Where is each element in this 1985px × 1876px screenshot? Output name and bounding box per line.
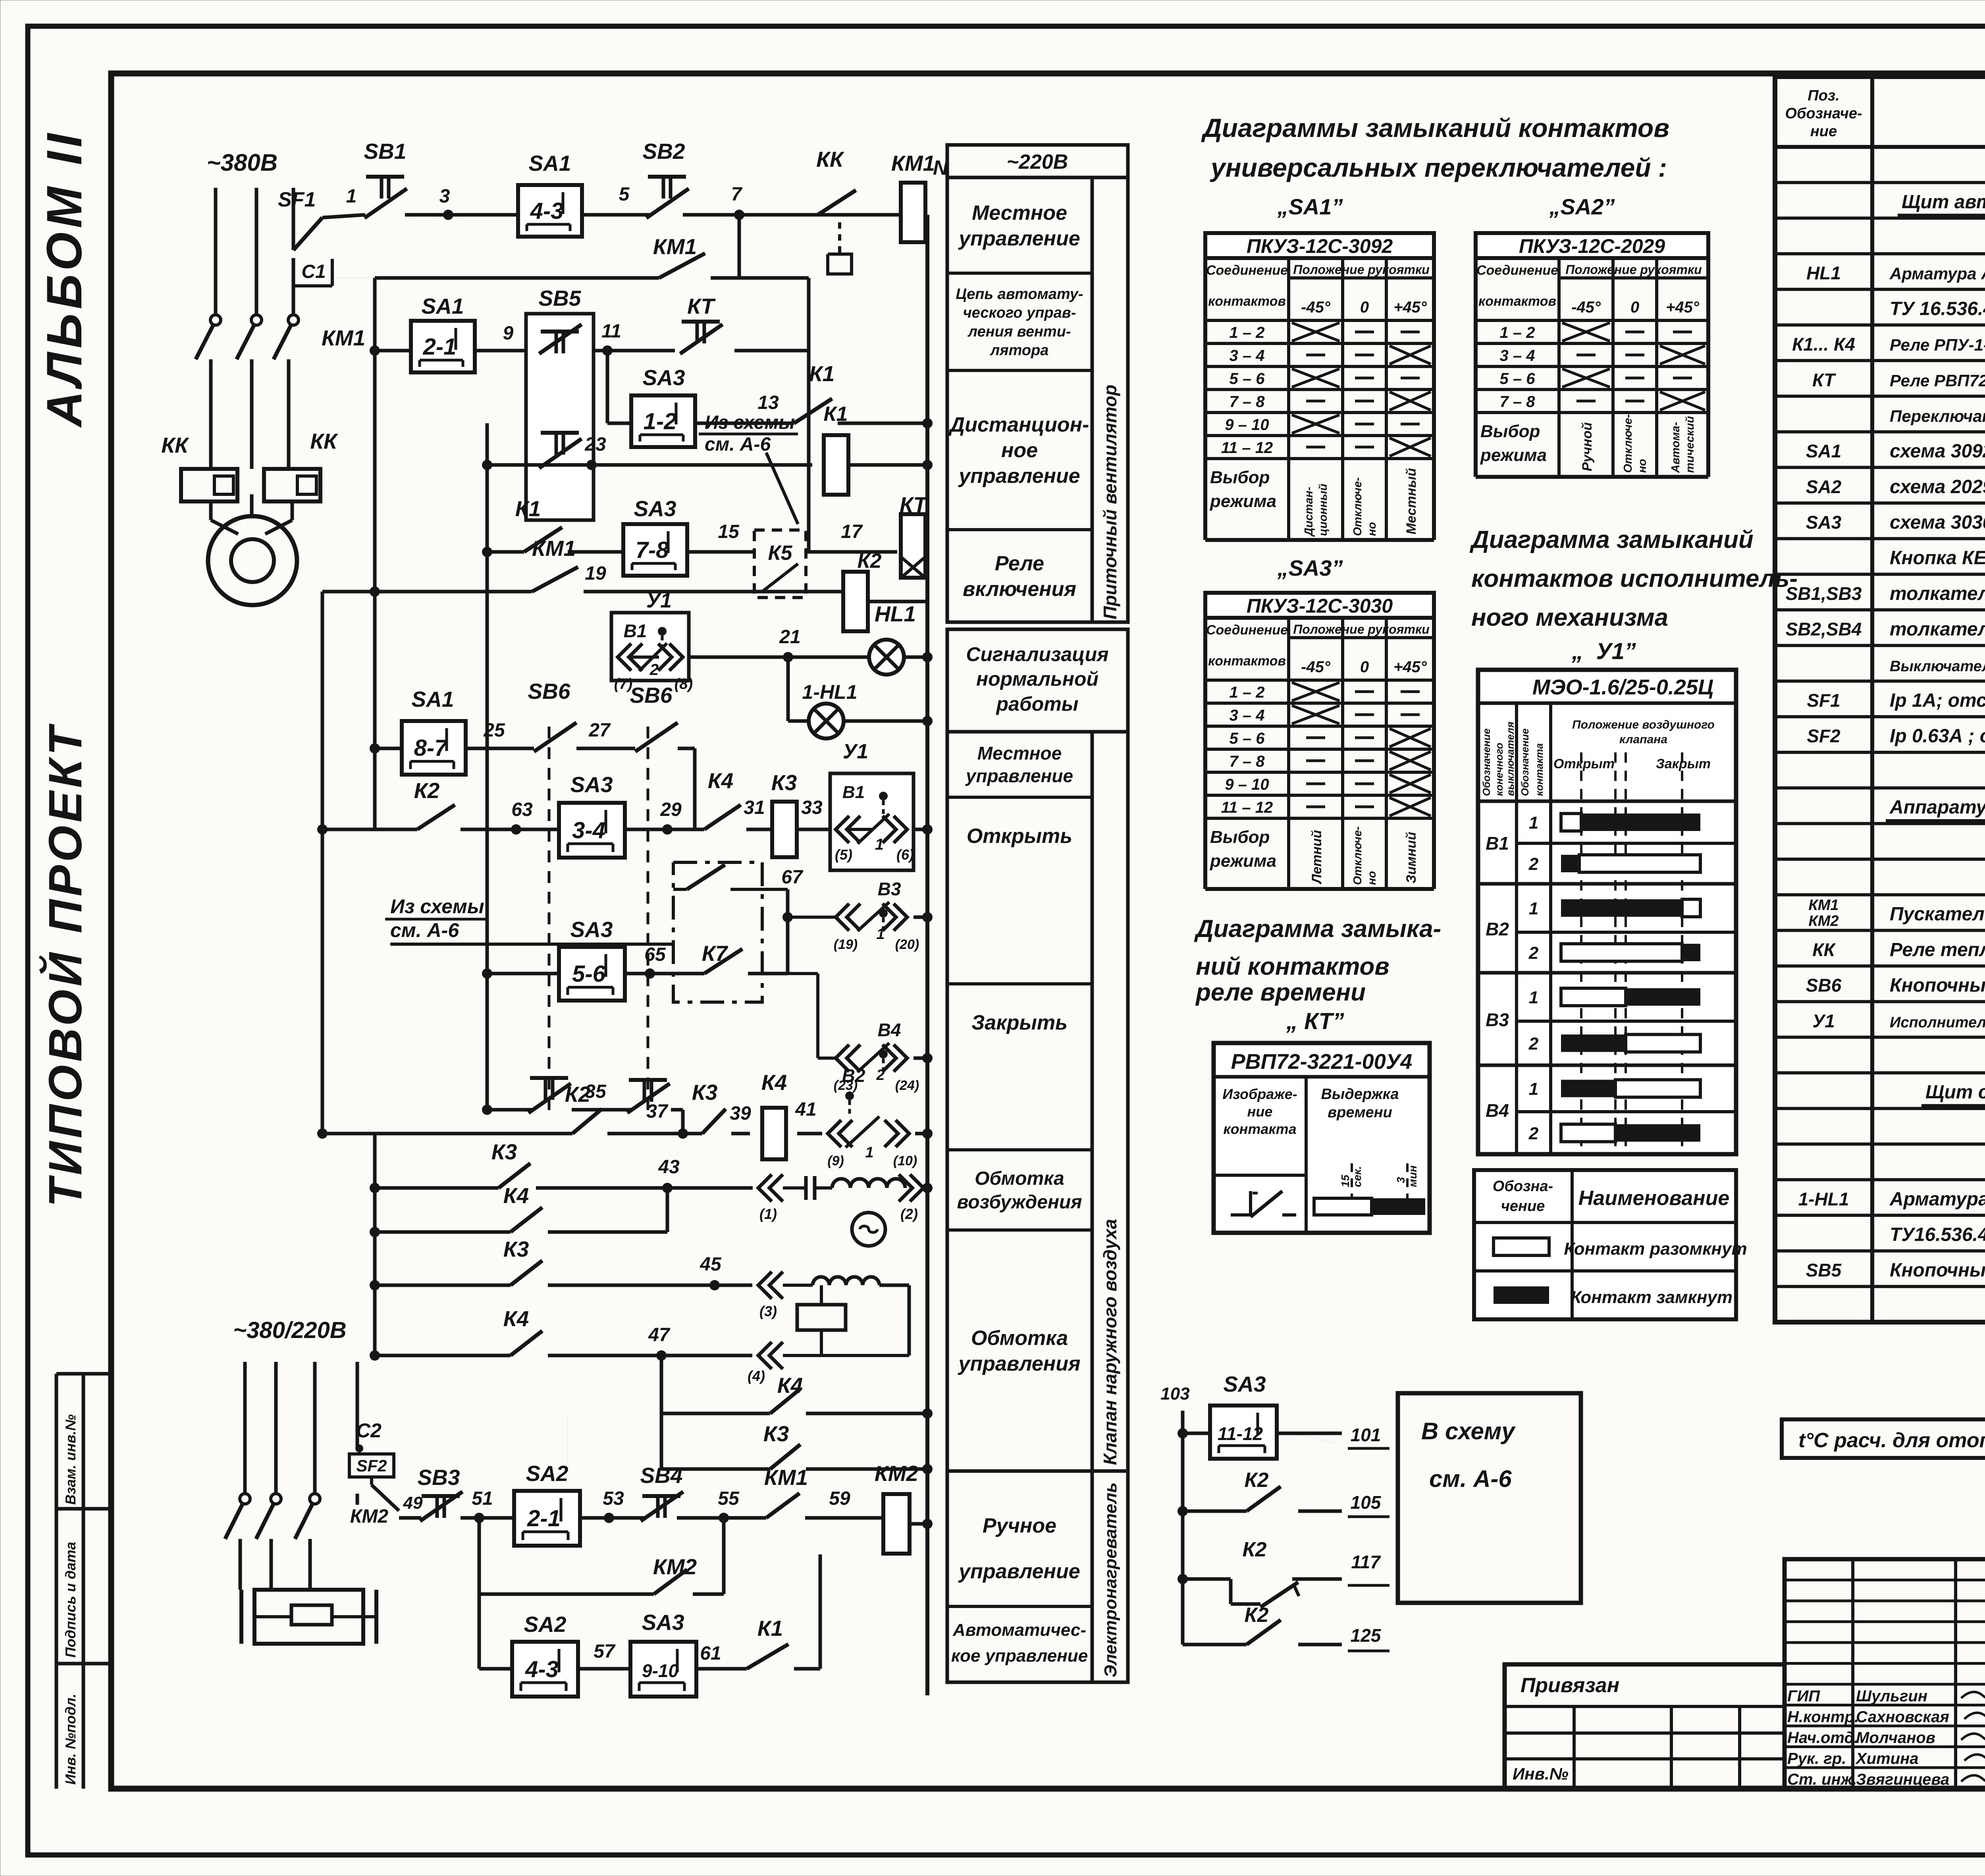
svg-text:У1: У1 [1812, 1010, 1835, 1031]
svg-text:Кнопочный пост управления ПКЕ: Кнопочный пост управления ПКЕ222-2У3 [1890, 975, 1985, 996]
svg-text:КК: КК [161, 433, 189, 457]
svg-text:Выбор: Выбор [1480, 422, 1540, 441]
switch box SA3 contacts 3-4 [559, 772, 625, 858]
svg-text:ний контактов: ний контактов [1196, 953, 1389, 980]
svg-text:SA3: SA3 [634, 496, 676, 521]
svg-text:КК: КК [816, 147, 844, 172]
svg-text:1: 1 [876, 926, 885, 943]
table MEO-1.6/25-0.25 actuator [1478, 670, 1736, 1154]
wire rung 43 field winding [370, 1183, 753, 1193]
wire rung automatic 57-61 [479, 1554, 820, 1669]
node 41 [795, 1099, 816, 1120]
button SB3 [418, 1465, 463, 1521]
svg-text:31: 31 [744, 797, 765, 818]
svg-text:контактов: контактов [1208, 654, 1286, 669]
svg-text:нормальной: нормальной [976, 668, 1098, 690]
node 39 [730, 1103, 751, 1124]
svg-text:ПКУЗ-12С-3030: ПКУЗ-12С-3030 [1247, 595, 1393, 617]
svg-text:SB1,SB3: SB1,SB3 [1786, 583, 1862, 604]
node 63 [511, 799, 533, 835]
node 27 [588, 720, 611, 741]
svg-text:(8): (8) [675, 676, 693, 692]
node 23 [584, 434, 606, 470]
svg-text:(6): (6) [896, 846, 914, 863]
svg-text:Закрыть: Закрыть [971, 1011, 1068, 1034]
svg-text:В1: В1 [842, 783, 865, 802]
svg-text:11 – 12: 11 – 12 [1221, 439, 1273, 457]
svg-text:лятора: лятора [990, 342, 1049, 359]
svg-text:Соединение: Соединение [1476, 263, 1558, 278]
coil K3 [771, 770, 797, 857]
svg-text:0: 0 [1630, 299, 1639, 316]
lamp 1-HL1 [802, 681, 933, 738]
wire phase C [292, 188, 295, 250]
contactor KM1 main contacts [196, 315, 365, 469]
svg-text:Выдержка: Выдержка [1321, 1086, 1399, 1103]
svg-text:Автоматичес-: Автоматичес- [952, 1620, 1086, 1640]
svg-text:Аппаратура по месту: Аппаратура по месту [1889, 797, 1985, 818]
svg-text:КМ1: КМ1 [764, 1465, 808, 1490]
svg-text:„ КТ”: „ КТ” [1286, 1008, 1344, 1034]
wire rung 2 [370, 345, 809, 356]
svg-text:ное: ное [1001, 439, 1038, 462]
svg-text:Арматура АС-220; U~220В; цве: Арматура АС-220; U~220В; цвет зеленый [1889, 1189, 1985, 1210]
svg-text:выключателя: выключателя [1504, 722, 1516, 796]
note box to scheme A-6 [1398, 1393, 1581, 1603]
svg-text:МЭО-1.6/25-0.25Ц: МЭО-1.6/25-0.25Ц [1532, 675, 1713, 699]
svg-text:SA1: SA1 [412, 687, 454, 711]
svg-text:29: 29 [660, 799, 682, 820]
svg-text:3 – 4: 3 – 4 [1230, 347, 1265, 364]
svg-text:Положение рукоятки: Положение рукоятки [1565, 262, 1702, 277]
svg-text:SB5: SB5 [539, 286, 582, 310]
svg-text:33: 33 [801, 797, 823, 818]
svg-text:Iр 0.63А ; отс. 1.3: Iр 0.63А ; отс. 1.3 [1890, 726, 1985, 747]
connector arrows and capacitor rung43 [758, 1174, 832, 1222]
svg-text:ПКУЗ-12С-3092: ПКУЗ-12С-3092 [1247, 235, 1393, 257]
switch box SA3 contacts 9-10 [630, 1610, 696, 1697]
inductor field winding [832, 1174, 933, 1222]
svg-text:5 – 6: 5 – 6 [1500, 370, 1536, 388]
svg-text:У1: У1 [843, 740, 868, 763]
contact K3 rung39 [692, 1080, 726, 1134]
svg-text:Цепь автомату-: Цепь автомату- [956, 286, 1083, 303]
node 31 [744, 797, 772, 829]
svg-text:Iр 1А; отс. 1.3: Iр 1А; отс. 1.3 [1890, 690, 1985, 711]
svg-text:Положение воздушного: Положение воздушного [1572, 718, 1715, 731]
svg-text:Открыть: Открыть [967, 825, 1072, 848]
svg-text:К1... К4: К1... К4 [1792, 334, 1855, 355]
svg-text:В3: В3 [878, 879, 901, 899]
wire rung 19 [370, 586, 844, 597]
svg-text:SF1: SF1 [1807, 690, 1840, 711]
svg-text:ПКУЗ-12С-2029: ПКУЗ-12С-2029 [1519, 235, 1665, 257]
contact K2 rung37 [565, 1082, 602, 1134]
svg-text:2-1: 2-1 [423, 334, 457, 360]
svg-text:К2: К2 [1243, 1538, 1267, 1561]
node 3 [439, 186, 453, 220]
svg-text:(24): (24) [895, 1078, 919, 1093]
node 65 [644, 944, 666, 979]
contact K3 field [491, 1139, 530, 1188]
svg-text:SB2: SB2 [643, 139, 685, 164]
svg-text:но: но [1636, 459, 1649, 473]
svg-text:Отключе-: Отключе- [1351, 477, 1364, 536]
svg-text:схема 3092: схема 3092 [1890, 441, 1985, 462]
svg-text:55: 55 [718, 1488, 740, 1509]
svg-text:Исполнительный механизм МЭО-1.: Исполнительный механизм МЭО-1.6/25-0.25Ц… [1890, 1014, 1985, 1031]
contact B3 with arrows [788, 879, 933, 952]
switch box SA2 contacts 2-1 [514, 1461, 580, 1546]
svg-text:ТИПОВОЙ ПРОЕКТ: ТИПОВОЙ ПРОЕКТ [38, 723, 92, 1207]
svg-text:Местное: Местное [977, 743, 1062, 764]
svg-text:Шульгин: Шульгин [1856, 1687, 1927, 1705]
svg-text:Автома-: Автома- [1669, 422, 1682, 473]
svg-text:~380В: ~380В [207, 149, 278, 176]
wire phase A [214, 188, 218, 315]
button SB1 [364, 139, 407, 218]
note from scheme A-6 top [699, 412, 798, 524]
svg-text:3 – 4: 3 – 4 [1500, 347, 1535, 364]
svg-text:клапана: клапана [1619, 733, 1667, 746]
svg-text:Выбор: Выбор [1210, 827, 1270, 847]
switch box SA1 contacts 8-7 [370, 687, 520, 775]
svg-text:0: 0 [1360, 658, 1369, 676]
svg-text:2: 2 [876, 1067, 885, 1084]
svg-text:SB6: SB6 [528, 679, 570, 704]
svg-text:„SA1”: „SA1” [1277, 194, 1343, 219]
svg-text:SA2: SA2 [1806, 476, 1842, 497]
svg-text:2: 2 [1528, 943, 1539, 963]
svg-text:HL1: HL1 [875, 602, 916, 626]
table SA3 PKU3-12S-3030 [1205, 593, 1434, 889]
svg-text:КМ2: КМ2 [653, 1554, 697, 1579]
wire rung manual 49-59 [350, 1493, 883, 1527]
wires into heater box [240, 1494, 357, 1590]
svg-text:(19): (19) [834, 937, 858, 952]
rail left lower [322, 592, 375, 1134]
svg-text:Подпись и дата: Подпись и дата [62, 1542, 79, 1658]
svg-text:реле времени: реле времени [1195, 979, 1366, 1006]
svg-text:ТУ 16.536.426-70: ТУ 16.536.426-70 [1890, 298, 1985, 319]
coil KM2 [875, 1461, 933, 1554]
svg-text:53: 53 [603, 1488, 624, 1509]
svg-text:Реле: Реле [995, 552, 1044, 575]
svg-text:SA3: SA3 [643, 365, 685, 390]
svg-text:9 – 10: 9 – 10 [1225, 416, 1269, 434]
switch box SA3 contacts 1-2 [631, 365, 695, 447]
svg-text:2: 2 [1528, 1124, 1539, 1143]
node 25 [483, 720, 505, 741]
svg-text:КМ1: КМ1 [1808, 897, 1839, 914]
contact K2 closed wire 117 [1178, 1538, 1389, 1607]
svg-text:0: 0 [1360, 299, 1369, 316]
svg-text:К5: К5 [768, 542, 793, 565]
svg-text:КМ1: КМ1 [322, 326, 365, 350]
svg-text:Переключатель ПКУЗ-12С; ТУ1: Переключатель ПКУЗ-12С; ТУ16.526.047-74 [1890, 407, 1985, 425]
svg-text:В3: В3 [1486, 1010, 1509, 1030]
svg-text:Дистан-: Дистан- [1303, 487, 1315, 537]
svg-text:но: но [1366, 522, 1378, 536]
svg-text:~380/220В: ~380/220В [233, 1317, 346, 1343]
svg-text:„SA3”: „SA3” [1277, 555, 1343, 580]
svg-text:Обмотка: Обмотка [971, 1327, 1068, 1350]
svg-text:К2: К2 [1245, 1604, 1269, 1627]
svg-text:SA2: SA2 [526, 1461, 569, 1486]
svg-text:У1: У1 [646, 589, 672, 612]
svg-text:101: 101 [1351, 1425, 1381, 1445]
bus ~380/220V label [233, 1317, 346, 1343]
svg-text:К1: К1 [757, 1616, 783, 1641]
svg-text:SA3: SA3 [1224, 1372, 1266, 1396]
svg-text:Диаграмма замыка-: Диаграмма замыка- [1194, 915, 1441, 943]
coil K2 [843, 549, 927, 631]
svg-text:117: 117 [1351, 1552, 1381, 1572]
mech link dashed SB6 left [548, 727, 551, 1112]
contact KK thermal [816, 147, 856, 274]
svg-text:Обозначение: Обозначение [1480, 729, 1492, 796]
svg-text:1: 1 [875, 836, 884, 853]
svg-text:толкатель красный: толкатель красный [1890, 583, 1985, 604]
svg-text:61: 61 [700, 1643, 721, 1664]
svg-text:К4: К4 [708, 768, 733, 793]
svg-text:управление: управление [958, 465, 1080, 488]
svg-text:Зимний: Зимний [1404, 832, 1419, 883]
svg-text:Открыт: Открыт [1553, 756, 1615, 771]
svg-text:105: 105 [1351, 1492, 1382, 1513]
svg-text:Обозна-: Обозна- [1493, 1178, 1553, 1195]
title block signature table [1785, 1559, 1985, 1789]
svg-text:3: 3 [439, 186, 450, 207]
left margin vertical text TIPOVOY PROEKT [38, 723, 92, 1207]
svg-text:SA2: SA2 [524, 1612, 567, 1637]
svg-text:(2): (2) [900, 1206, 918, 1222]
node 51 [472, 1488, 493, 1523]
svg-text:Сигнализация: Сигнализация [966, 643, 1108, 665]
mech link dashed SB6 right [647, 727, 649, 1112]
svg-text:КМ1: КМ1 [532, 536, 576, 561]
node 17 [841, 521, 863, 542]
svg-text:Клапан наружного воздуха: Клапан наружного воздуха [1100, 1219, 1120, 1465]
svg-text:Приточный вентилятор: Приточный вентилятор [1100, 385, 1120, 619]
svg-text:Инв.№: Инв.№ [1513, 1764, 1569, 1783]
svg-text:+45°: +45° [1393, 299, 1427, 316]
svg-text:(3): (3) [759, 1303, 777, 1319]
svg-text:Соединение: Соединение [1206, 263, 1288, 278]
svg-text:+45°: +45° [1393, 658, 1427, 676]
svg-text:АЛЬБОМ II: АЛЬБОМ II [37, 129, 92, 428]
rail N right [927, 156, 948, 1695]
svg-text:5 – 6: 5 – 6 [1230, 370, 1265, 388]
breaker SF2 and C2 [349, 1419, 399, 1511]
node 45 [700, 1254, 722, 1290]
svg-text:67: 67 [781, 867, 804, 888]
wire rung 1 main [322, 215, 901, 218]
svg-text:КМ2: КМ2 [350, 1506, 388, 1527]
svg-text:Местное: Местное [972, 201, 1067, 224]
svg-text:Привязан: Привязан [1521, 1674, 1619, 1697]
svg-text:103: 103 [1160, 1384, 1189, 1404]
table RVP72-3221-00U4 time relay [1214, 1043, 1430, 1233]
node 59 [829, 1488, 850, 1509]
svg-text:К2: К2 [565, 1082, 591, 1107]
svg-text:49: 49 [403, 1493, 423, 1513]
svg-text:Щит автоматизации ЩА: Щит автоматизации ЩА [1902, 191, 1985, 212]
svg-text:Реле тепловое: Реле тепловое [1890, 939, 1985, 960]
svg-text:К4: К4 [503, 1183, 529, 1208]
svg-text:Рук. гр.: Рук. гр. [1787, 1750, 1846, 1768]
svg-text:Изображе-: Изображе- [1222, 1086, 1297, 1102]
svg-text:управление: управление [958, 227, 1080, 250]
svg-text:ТУ16.536.426-70 ;: ТУ16.536.426-70 ; [1890, 1224, 1985, 1245]
wire phase B [255, 188, 258, 315]
node 11 [601, 321, 621, 356]
svg-text:Взам. инв.№: Взам. инв.№ [62, 1414, 79, 1505]
svg-text:Щит сигнализации ЩС: Щит сигнализации ЩС [1925, 1082, 1985, 1103]
svg-text:5 – 6: 5 – 6 [1230, 730, 1265, 747]
svg-text:1: 1 [1529, 813, 1538, 833]
svg-text:SB5: SB5 [1806, 1260, 1842, 1280]
svg-text:контактов: контактов [1478, 294, 1556, 309]
svg-text:3-4: 3-4 [572, 817, 605, 843]
svg-text:К4: К4 [503, 1306, 529, 1331]
svg-text:SF2: SF2 [1807, 726, 1840, 746]
svg-text:43: 43 [658, 1157, 680, 1178]
svg-text:Положение рукоятки: Положение рукоятки [1293, 622, 1429, 636]
table specification frame [1775, 77, 1985, 1322]
svg-text:Хитина: Хитина [1855, 1750, 1919, 1768]
svg-text:Отключе-: Отключе- [1622, 414, 1634, 473]
svg-text:В4: В4 [1486, 1100, 1509, 1121]
svg-text:SA3: SA3 [642, 1610, 684, 1635]
svg-text:Ст. инж.: Ст. инж. [1787, 1771, 1857, 1788]
svg-text:тический: тический [1684, 416, 1696, 473]
svg-text:К2: К2 [858, 549, 882, 573]
lamp HL1 [869, 602, 933, 675]
svg-text:управления: управления [957, 1352, 1080, 1375]
svg-text:7: 7 [731, 184, 743, 205]
svg-text:контакта: контакта [1223, 1121, 1296, 1137]
svg-text:25: 25 [483, 720, 505, 741]
node 9 [503, 323, 514, 344]
vertical label Pritochny ventilyator [1092, 177, 1128, 622]
heading time relay diagram [1194, 915, 1441, 1034]
svg-text:~220В: ~220В [1007, 150, 1068, 174]
switch box SA1 contacts 4-3 [518, 151, 582, 237]
svg-text:возбуждения: возбуждения [957, 1192, 1082, 1213]
wire rung K4 3103 [370, 1188, 667, 1237]
electric heater box [241, 1590, 376, 1644]
vertical label Elektronagrevatel [1092, 1471, 1128, 1682]
svg-text:управление: управление [965, 765, 1073, 786]
svg-text:К3: К3 [503, 1237, 529, 1261]
svg-text:схема 2029: схема 2029 [1890, 476, 1985, 497]
contact B4 with arrows [788, 974, 933, 1093]
svg-text:см. А-6: см. А-6 [390, 919, 459, 941]
label Y1 quoted [1571, 638, 1636, 664]
node 5 [619, 184, 630, 205]
svg-text:7 – 8: 7 – 8 [1500, 393, 1536, 411]
wire rung K4 3560 [661, 1355, 933, 1419]
svg-text:К2: К2 [1245, 1469, 1269, 1492]
svg-text:„SA2”: „SA2” [1549, 194, 1615, 219]
actuator Y1 contact box B1 lower [830, 740, 933, 870]
svg-text:23: 23 [584, 434, 606, 455]
svg-text:15: 15 [1339, 1174, 1351, 1187]
svg-text:Из схемы: Из схемы [390, 895, 484, 918]
mode column signal cell [947, 629, 1128, 732]
mode column heater cells [947, 1471, 1092, 1682]
svg-text:КК: КК [1812, 939, 1836, 960]
thermal relay KK heater left [161, 433, 237, 501]
connector arrow 3 [758, 1272, 813, 1319]
wire rung 15-17 [482, 547, 897, 557]
contact KM1 manual [764, 1465, 808, 1518]
svg-text:см. А-6: см. А-6 [705, 434, 771, 455]
svg-text:63: 63 [511, 799, 533, 820]
contact K7 lower [704, 949, 788, 974]
contact K1 seal-in [794, 361, 834, 423]
svg-text:К3: К3 [692, 1080, 717, 1105]
svg-text:(10): (10) [893, 1153, 917, 1168]
wires heaters to motor [211, 494, 292, 534]
svg-text:2-1: 2-1 [527, 1506, 561, 1531]
svg-text:В1: В1 [1486, 833, 1509, 854]
svg-text:SB4: SB4 [640, 1463, 683, 1488]
svg-text:Ручное: Ручное [983, 1514, 1056, 1537]
switch box SA3 contacts 5-6 [559, 917, 625, 1001]
contact K2 wire 105 [1178, 1469, 1389, 1517]
mode column fan cells [947, 177, 1092, 622]
svg-text:8-7: 8-7 [414, 735, 449, 761]
svg-text:но: но [1366, 871, 1378, 885]
svg-text:ного механизма: ного механизма [1471, 604, 1668, 631]
label SA3 quoted [1277, 555, 1343, 580]
contact KT time relay [680, 294, 723, 354]
wire rung K3 3700 [568, 1413, 933, 1474]
contact K4 3103 [503, 1183, 542, 1232]
svg-text:конечного: конечного [1493, 742, 1505, 796]
svg-text:11 – 12: 11 – 12 [1221, 799, 1273, 816]
svg-text:11: 11 [601, 321, 621, 342]
svg-text:1 – 2: 1 – 2 [1230, 684, 1265, 701]
svg-text:Пускатель магнитный: Пускатель магнитный [1890, 904, 1985, 925]
node 103 [1160, 1384, 1189, 1404]
svg-text:„ У1”: „ У1” [1571, 638, 1636, 664]
svg-text:19: 19 [585, 563, 606, 584]
rail mid-left [482, 423, 492, 1112]
svg-text:К4: К4 [777, 1373, 803, 1398]
svg-text:2: 2 [1528, 1034, 1539, 1054]
svg-text:В4: В4 [878, 1020, 901, 1040]
label SA1 quoted [1277, 194, 1343, 219]
button SB2 [643, 139, 689, 218]
svg-text:Кнопка КЕ-011 исп. 2 ТУ16.5: Кнопка КЕ-011 исп. 2 ТУ16.526.407-76 [1890, 548, 1985, 569]
svg-text:13: 13 [757, 392, 779, 413]
svg-text:41: 41 [795, 1099, 816, 1120]
svg-text:ления венти-: ления венти- [967, 323, 1071, 340]
mode column box 220V [947, 145, 1128, 177]
contact KM1 rung19 [532, 536, 606, 592]
svg-text:Контакт разомкнут: Контакт разомкнут [1564, 1239, 1747, 1259]
contact K3 3237 [503, 1237, 542, 1285]
table specification rows [1775, 183, 1985, 1287]
svg-text:7-8: 7-8 [636, 537, 669, 563]
table SA2 PKU3-12S-2029 [1476, 233, 1708, 477]
svg-text:Отключе-: Отключе- [1351, 826, 1364, 885]
svg-text:Электронагреватель: Электронагреватель [1101, 1483, 1120, 1677]
contact K1 lower [515, 496, 562, 552]
